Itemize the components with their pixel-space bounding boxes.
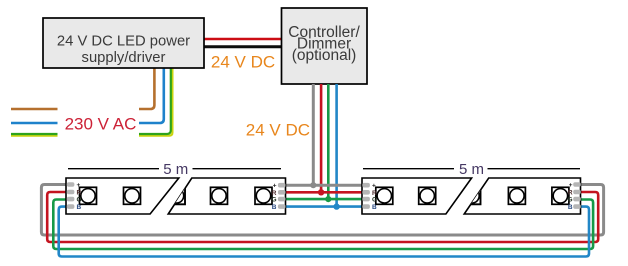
controller box U1 xyxy=(282,8,368,84)
LED D5 xyxy=(255,187,272,204)
svg-text:+: + xyxy=(273,183,277,190)
wire B blue loop strip1-left to strip2-right via bottom xyxy=(59,207,589,257)
wire 230V L brown left segment xyxy=(11,108,58,111)
svg-text:+: + xyxy=(372,183,376,190)
junction dot green xyxy=(325,196,331,202)
LED D1 xyxy=(80,187,97,204)
svg-text:B: B xyxy=(272,204,277,211)
svg-text:+: + xyxy=(77,182,81,189)
wire 230V N blue left segment xyxy=(11,122,58,125)
LED strip 2 right piece xyxy=(464,178,581,214)
svg-text:24 V DC LED power: 24 V DC LED power xyxy=(57,34,190,50)
wire R red controller drop xyxy=(320,84,323,192)
LED D10 xyxy=(552,187,569,204)
svg-text:5 m: 5 m xyxy=(459,161,484,178)
wire G green controller drop xyxy=(327,84,330,199)
wire 24V positive red PSU to controller xyxy=(204,38,282,41)
connector strip2 left pads xyxy=(362,183,377,211)
svg-text:G: G xyxy=(568,197,573,204)
wire R red strip1-right to strip2-left xyxy=(284,191,363,194)
junction dot red xyxy=(318,189,324,195)
wire 230V PE green-yellow left segment xyxy=(11,134,58,136)
LED strip 1 left piece xyxy=(66,178,179,214)
wire B blue strip1-right to strip2-left xyxy=(284,205,363,208)
LED D4 xyxy=(211,187,228,204)
wire R red loop strip1-left to strip2-right via bottom xyxy=(47,192,598,242)
svg-text:(optional): (optional) xyxy=(292,47,357,64)
LED strip 2 left piece xyxy=(362,178,472,214)
label 24 V DC (top) xyxy=(211,53,275,72)
connector strip1 right pads xyxy=(271,183,285,211)
svg-text:24 V DC: 24 V DC xyxy=(246,121,310,140)
svg-text:G: G xyxy=(77,197,82,204)
svg-text:R: R xyxy=(568,190,573,197)
wire 24V negative black PSU to controller xyxy=(204,45,282,48)
svg-text:G: G xyxy=(271,197,276,204)
svg-text:B: B xyxy=(568,204,573,211)
wire + gray controller drop xyxy=(312,84,315,185)
svg-text:B: B xyxy=(77,204,82,211)
junction dot gray xyxy=(310,182,316,188)
svg-text:5 m: 5 m xyxy=(163,161,188,178)
wire G green strip1-right to strip2-left xyxy=(284,198,363,201)
wire G green loop strip1-left to strip2-right via bottom xyxy=(53,200,593,250)
dimension line strip2 5 m xyxy=(363,161,580,178)
label 230 V AC xyxy=(65,115,137,134)
LED D2 xyxy=(124,187,141,204)
LED D6 xyxy=(376,187,393,204)
wire + gray loop strip1-left to strip2-right via bottom xyxy=(41,185,603,236)
LED D8 partial at break xyxy=(464,187,481,204)
svg-text:R: R xyxy=(77,190,82,197)
svg-text:+: + xyxy=(569,182,573,189)
label 24 V DC (middle) xyxy=(246,121,310,140)
connector strip2 right pads xyxy=(568,182,581,211)
dimension line strip1 5 m xyxy=(68,161,281,178)
wire + gray strip1-right to strip2-left xyxy=(284,184,363,187)
LED D9 xyxy=(508,187,525,204)
wire 230V PE green-yellow to PSU xyxy=(139,69,172,136)
LED strip 1 right piece xyxy=(168,178,286,214)
LED D7 xyxy=(419,187,436,204)
svg-text:B: B xyxy=(372,204,377,211)
wire 230V L brown to PSU xyxy=(139,69,154,110)
svg-text:supply/driver: supply/driver xyxy=(82,50,166,66)
LED D3 partial at break xyxy=(168,187,185,204)
svg-text:230 V AC: 230 V AC xyxy=(65,115,137,134)
wire 230V N blue to PSU xyxy=(139,69,164,124)
wire B blue controller drop xyxy=(335,84,338,207)
svg-text:G: G xyxy=(372,197,377,204)
power supply box xyxy=(43,18,204,68)
connector strip1 left pads xyxy=(67,182,82,211)
junction dot blue xyxy=(333,203,339,209)
svg-text:24 V DC: 24 V DC xyxy=(211,53,275,72)
